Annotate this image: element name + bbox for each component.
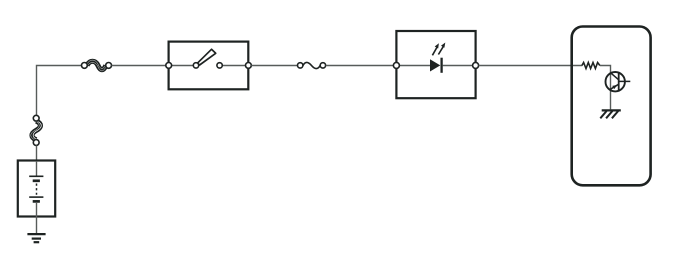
battery B1 negative plate (bottom short)	[33, 200, 40, 203]
chassis ground (module)	[600, 110, 621, 118]
switch fixed contact circle	[217, 63, 222, 68]
wire: left corner from battery branch to fusible link F1	[37, 66, 82, 115]
fusible link F3 (vertical) squiggle	[31, 121, 41, 140]
LED box right terminal circle	[473, 62, 479, 68]
wire: fusible link F1 to switch box	[112, 65, 166, 67]
wire: switch fixed contact to right terminal	[222, 65, 245, 67]
resistor R1	[582, 63, 600, 69]
fuse F2 wave	[303, 62, 320, 68]
fusible link F1 left terminal circle	[82, 63, 88, 69]
LED light arrow 1 head	[435, 43, 439, 48]
switch box S1	[169, 42, 249, 90]
fusible link F1 right terminal circle	[106, 63, 112, 69]
LED box left terminal circle	[393, 62, 399, 68]
wire: resistor to transistor collector and down to ground	[600, 66, 611, 110]
wire: LED cathode to right terminal	[443, 65, 473, 67]
LED D1 cathode bar	[440, 58, 442, 73]
fuse F2 right terminal circle	[320, 63, 325, 68]
switch box left terminal circle	[166, 63, 172, 69]
battery B1 positive plate (top long)	[29, 175, 43, 177]
wire: fuse F2 to LED box	[326, 65, 394, 67]
wire: battery bottom plate through box to earth ground	[36, 202, 38, 233]
switch box right terminal circle	[246, 63, 252, 69]
earth ground (battery)	[27, 234, 45, 242]
wire: fusible link F3 to battery box	[36, 145, 38, 160]
battery box B1	[18, 161, 55, 217]
LED light arrow 2 shaft	[438, 47, 443, 55]
transistor Q1	[606, 72, 631, 91]
switch movable contact circle	[193, 63, 198, 68]
fusible link F1 (horizontal) squiggle	[87, 60, 106, 71]
LED box D1	[396, 31, 475, 98]
wire: battery box top to first plate	[36, 161, 38, 176]
wire: LED box to resistor inside module	[479, 65, 583, 67]
LED D1 triangle (anode)	[430, 59, 440, 71]
wire: switch left terminal to movable contact	[172, 65, 194, 67]
fuse F2 left terminal circle	[298, 63, 303, 68]
LED light arrow 2 head	[441, 43, 445, 48]
wire: switch box to fuse F2	[251, 65, 297, 67]
fusible link F3 bottom terminal circle	[33, 140, 39, 146]
fusible link F3 top terminal circle	[33, 115, 39, 121]
switch lever (open blade)	[197, 49, 215, 65]
battery B1 negative plate (top short)	[33, 179, 40, 182]
wire: LED box left terminal to anode	[399, 65, 430, 67]
battery B1 omitted-cells dashed link	[36, 184, 38, 195]
module box (rounded) U1	[572, 27, 651, 186]
LED light arrow 1 shaft	[432, 47, 437, 55]
battery B1 positive plate (bottom long)	[29, 196, 43, 198]
